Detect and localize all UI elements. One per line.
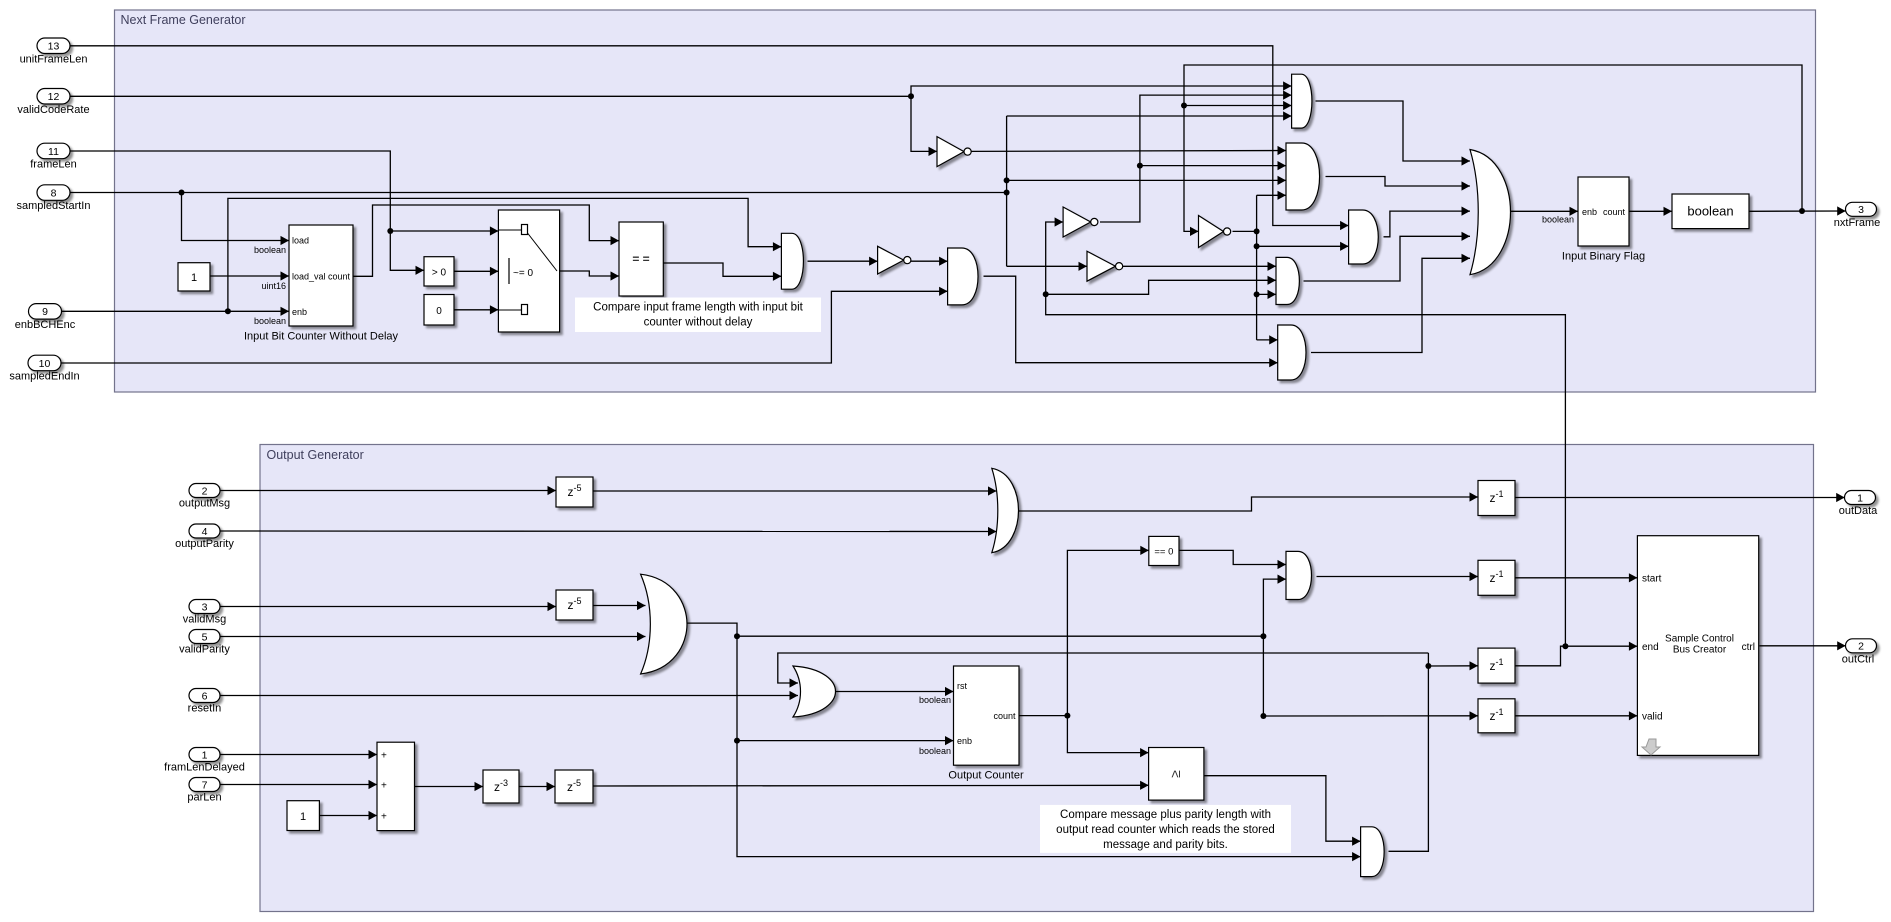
svg-text:4: 4 (202, 526, 208, 538)
svg-text:0: 0 (436, 306, 442, 317)
svg-text:valid: valid (1642, 712, 1663, 723)
svg-text:5: 5 (202, 631, 208, 643)
svg-text:1: 1 (202, 749, 208, 761)
svg-text:Input Binary Flag: Input Binary Flag (1562, 251, 1645, 263)
svg-text:10: 10 (39, 358, 51, 370)
svg-text:boolean: boolean (254, 245, 286, 255)
svg-text:enb: enb (957, 736, 972, 746)
svg-text:outputMsg: outputMsg (179, 498, 230, 510)
svg-text:boolean: boolean (919, 746, 951, 756)
svg-text:boolean: boolean (919, 695, 951, 705)
svg-text:outData: outData (1839, 505, 1878, 517)
svg-text:== 0: == 0 (1154, 547, 1173, 558)
svg-text:Compare input frame length wit: Compare input frame length with input bi… (593, 302, 803, 314)
svg-text:Compare message plus parity le: Compare message plus parity length with (1060, 809, 1271, 821)
svg-text:3: 3 (1858, 204, 1864, 216)
svg-text:counter without delay: counter without delay (644, 317, 753, 329)
svg-text:> 0: > 0 (432, 268, 447, 279)
svg-text:end: end (1642, 642, 1659, 653)
svg-text:enb: enb (292, 307, 307, 317)
svg-text:outputParity: outputParity (175, 538, 234, 550)
svg-text:uint16: uint16 (261, 281, 286, 291)
svg-text:count: count (993, 711, 1016, 721)
svg-text:boolean: boolean (1687, 204, 1733, 219)
svg-text:frameLen: frameLen (30, 159, 76, 171)
svg-text:Bus Creator: Bus Creator (1673, 645, 1727, 656)
svg-text:1: 1 (300, 811, 306, 823)
svg-text:output read counter which read: output read counter which reads the stor… (1056, 824, 1275, 836)
svg-text:3: 3 (202, 601, 208, 613)
svg-text:1: 1 (191, 272, 197, 284)
svg-text:count: count (328, 272, 351, 282)
svg-text:outCtrl: outCtrl (1842, 653, 1874, 665)
svg-text:13: 13 (48, 41, 60, 53)
svg-text:enb: enb (1582, 207, 1597, 217)
svg-text:12: 12 (48, 91, 60, 103)
svg-text:message and parity bits.: message and parity bits. (1103, 839, 1228, 851)
svg-text:load: load (292, 236, 309, 246)
svg-text:2: 2 (1858, 641, 1864, 653)
svg-text:11: 11 (48, 146, 59, 158)
svg-text:Sample Control: Sample Control (1665, 634, 1734, 645)
svg-text:+: + (381, 812, 387, 823)
svg-text:validMsg: validMsg (183, 614, 226, 626)
svg-text:Output Generator: Output Generator (267, 448, 364, 462)
svg-text:≥: ≥ (1167, 770, 1183, 778)
svg-text:Output Counter: Output Counter (948, 770, 1024, 782)
svg-text:resetIn: resetIn (188, 703, 222, 715)
svg-text:load_val: load_val (292, 272, 326, 282)
svg-text:unitFrameLen: unitFrameLen (20, 54, 88, 66)
svg-text:+: + (381, 751, 387, 762)
svg-text:boolean: boolean (1542, 215, 1574, 225)
svg-text:start: start (1642, 574, 1662, 585)
svg-text:Input Bit Counter Without Dela: Input Bit Counter Without Delay (244, 331, 399, 343)
svg-text:sampledStartIn: sampledStartIn (17, 200, 91, 212)
svg-text:8: 8 (51, 187, 57, 199)
svg-text:2: 2 (202, 485, 208, 497)
svg-text:rst: rst (957, 681, 967, 691)
svg-text:nxtFrame: nxtFrame (1834, 217, 1880, 229)
svg-text:count: count (1603, 207, 1626, 217)
svg-text:Next Frame Generator: Next Frame Generator (121, 13, 246, 27)
svg-text:+: + (381, 781, 387, 792)
svg-text:validParity: validParity (179, 644, 230, 656)
svg-text:parLen: parLen (187, 792, 221, 804)
svg-text:6: 6 (202, 690, 208, 702)
svg-text:9: 9 (42, 306, 48, 318)
svg-text:boolean: boolean (254, 316, 286, 326)
svg-text:enbBCHEnc: enbBCHEnc (15, 319, 76, 331)
svg-text:validCodeRate: validCodeRate (17, 104, 89, 116)
svg-text:ctrl: ctrl (1742, 642, 1755, 653)
svg-text:= =: = = (632, 252, 649, 266)
svg-text:~= 0: ~= 0 (513, 268, 533, 279)
svg-text:1: 1 (1857, 492, 1863, 504)
svg-text:sampledEndIn: sampledEndIn (9, 371, 79, 383)
svg-text:7: 7 (202, 779, 208, 791)
svg-text:framLenDelayed: framLenDelayed (164, 762, 245, 774)
